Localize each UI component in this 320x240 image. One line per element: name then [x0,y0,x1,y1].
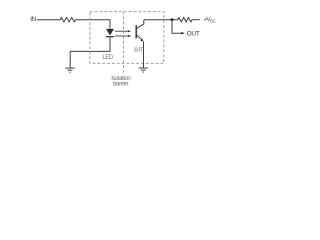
wire R2 to +VCC [192,19,200,21]
resistor R2 [178,18,193,22]
wire BJT collector to node [144,19,178,21]
junction node dot [171,18,174,21]
wire LED cathode to ground [70,37,110,68]
svg-text:IN: IN [30,16,36,23]
isolation barrier divider dashed line [123,12,125,73]
OUT arrowhead [181,32,185,35]
ground GND2 [139,68,148,72]
light arrow 1 [115,30,131,32]
light arrow 2 [115,35,131,37]
ground GND1 [65,68,74,72]
svg-text:BJT: BJT [134,48,143,54]
svg-text:CC: CC [210,19,216,24]
svg-text:LED: LED [102,55,113,61]
resistor R1 [60,18,76,22]
+VCC label [204,17,216,24]
transistor Q1 (BJT) [136,20,144,42]
isolation dashed box [90,12,164,64]
wire R1 to LED anode [76,20,110,29]
svg-text:OUT: OUT [187,30,200,37]
wire BJT emitter to ground [143,41,145,68]
wire node to OUT [172,20,182,34]
LED D1 [106,29,114,37]
svg-text:barrier: barrier [113,81,128,88]
wire IN to resistor R1 [37,19,60,21]
